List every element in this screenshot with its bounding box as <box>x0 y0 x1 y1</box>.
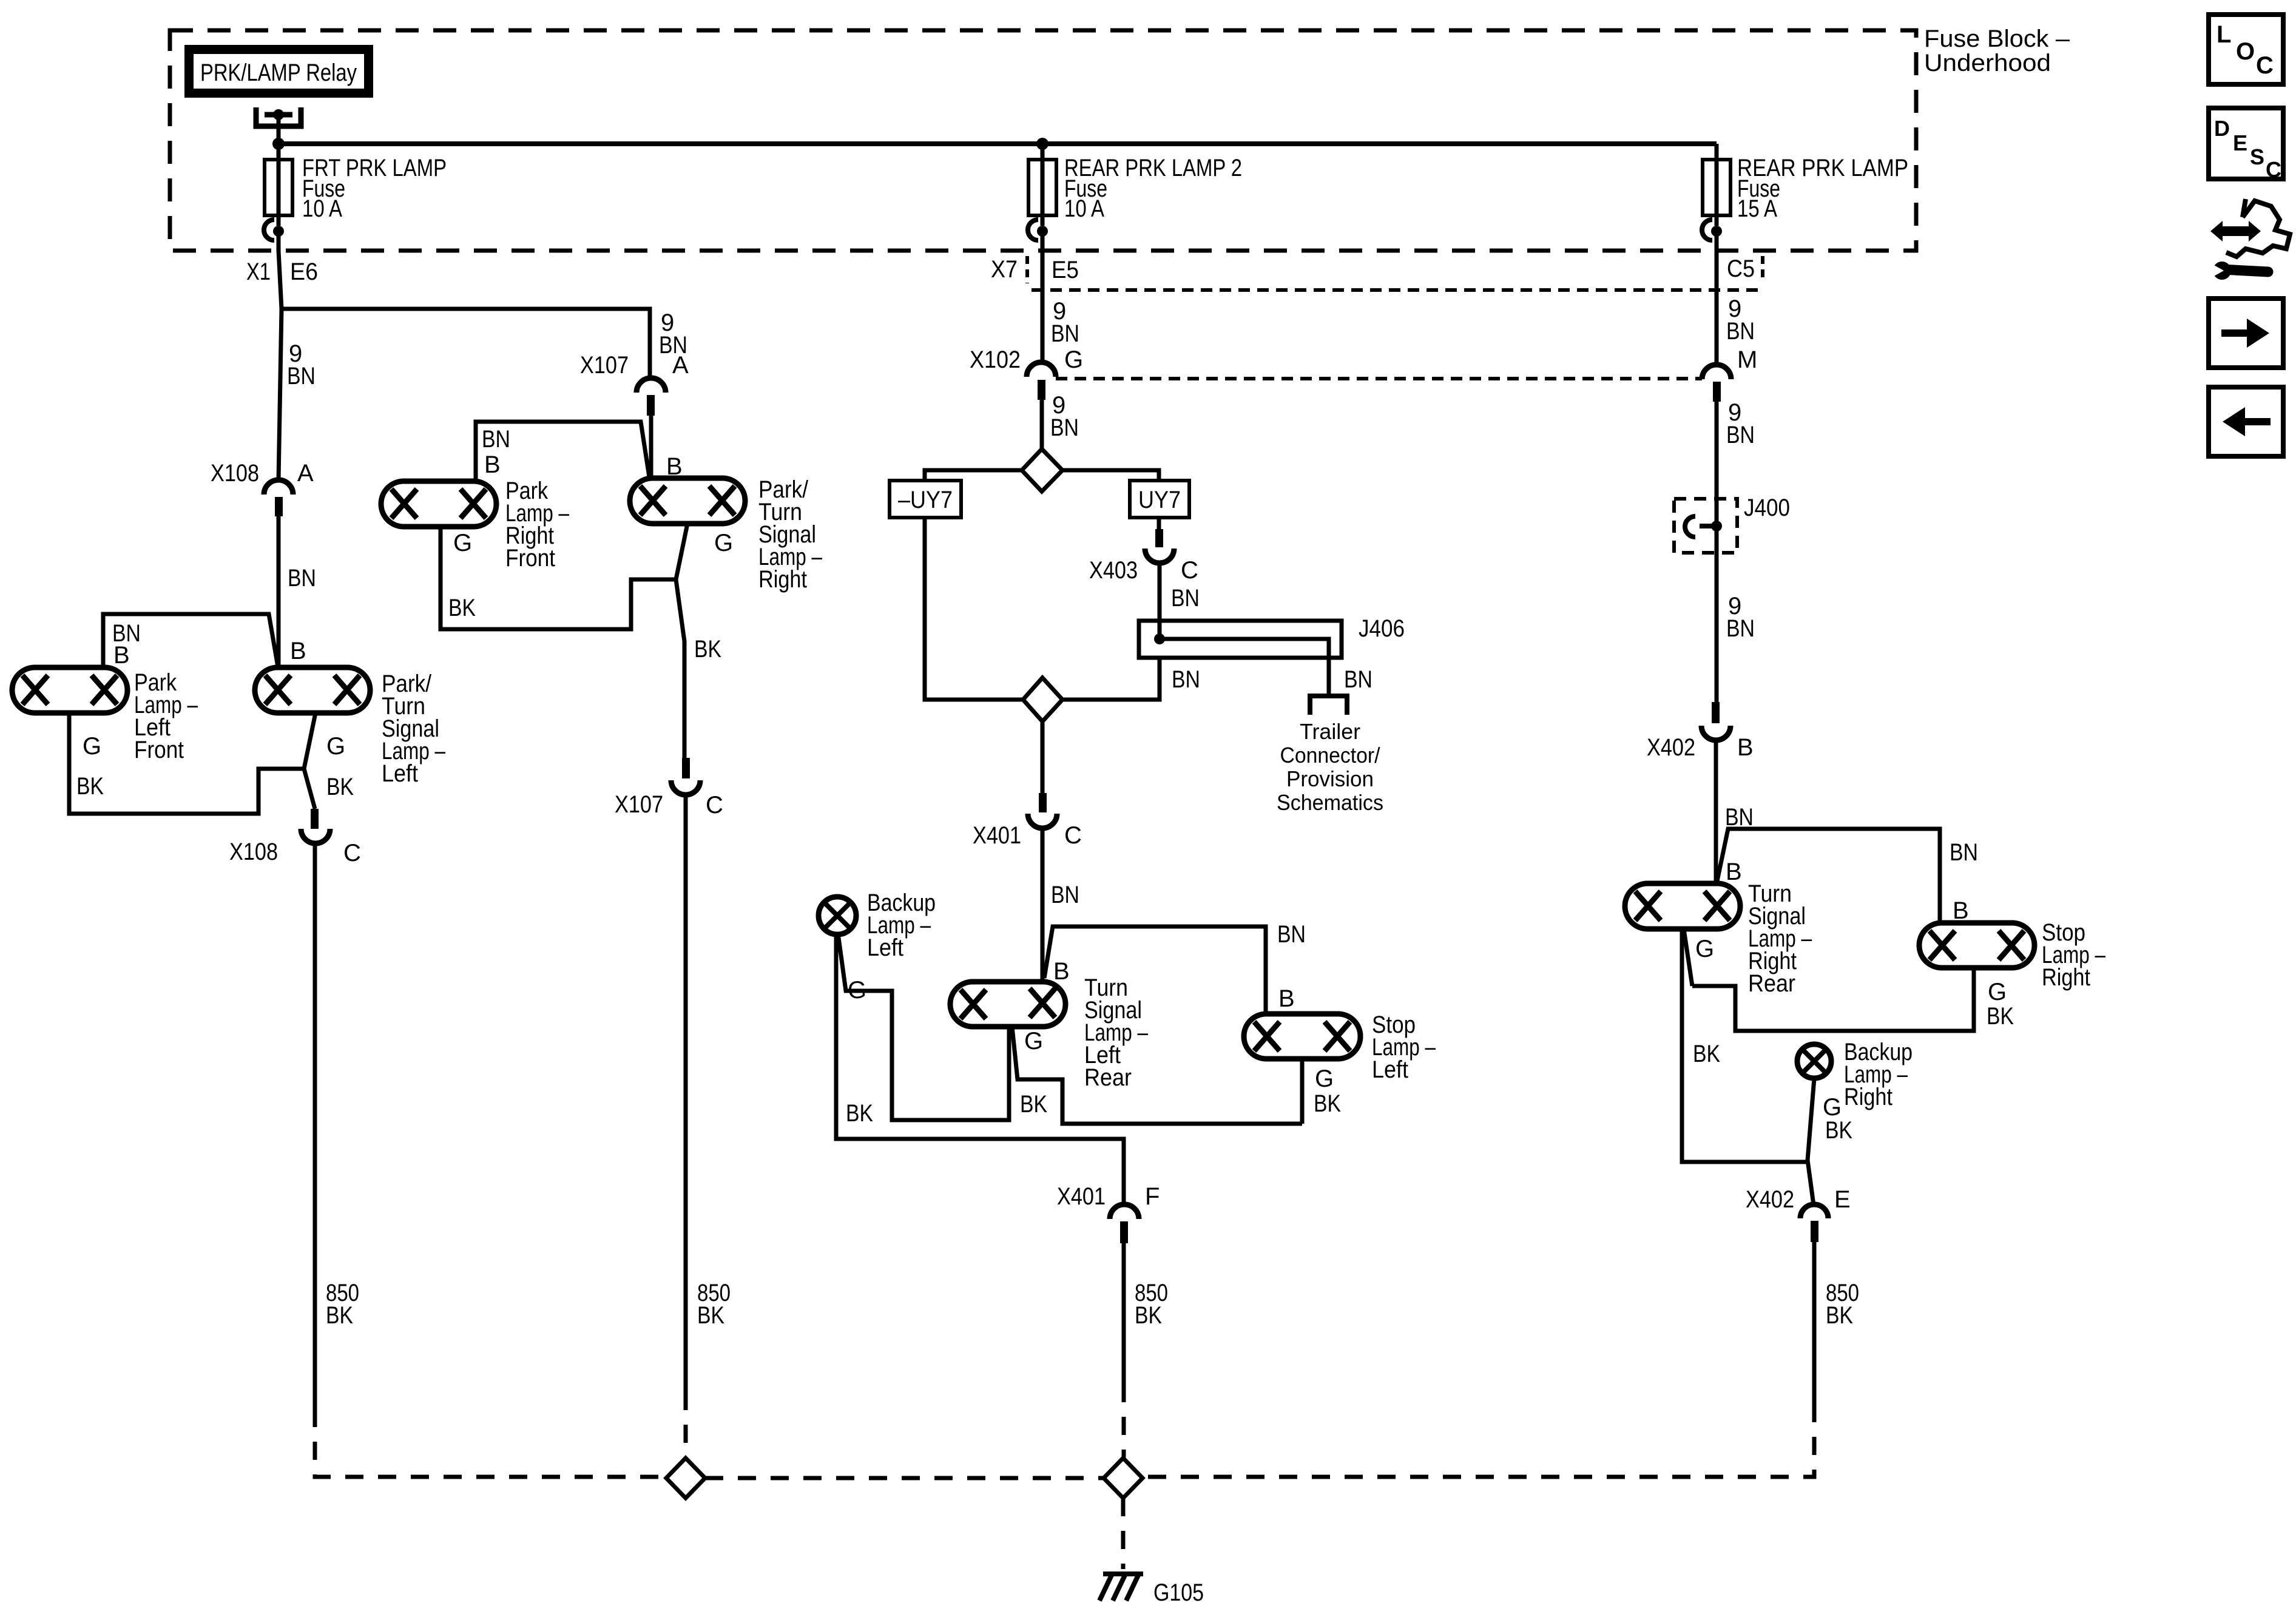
svg-text:M: M <box>1737 346 1757 373</box>
svg-text:BN: BN <box>482 426 510 453</box>
svg-text:BN: BN <box>1051 882 1079 908</box>
wire X402 B down to Y split <box>1714 740 1718 885</box>
svg-text:G: G <box>1695 936 1714 962</box>
lamp E7: Backup Lamp Left <box>819 897 856 934</box>
svg-text:A: A <box>672 352 689 379</box>
fuse F3 output clip <box>1702 220 1712 240</box>
connector X403 pin C <box>1155 529 1163 547</box>
svg-text:G: G <box>714 530 733 556</box>
svg-text:X7: X7 <box>991 256 1018 283</box>
svg-text:10 A: 10 A <box>1064 195 1104 222</box>
wire bus to FRT PRK LAMP fuse <box>277 144 281 160</box>
svg-text:G: G <box>326 733 345 760</box>
svg-text:BK: BK <box>697 1302 724 1329</box>
svg-text:C: C <box>2266 157 2281 182</box>
splice pack J406 <box>1139 621 1342 658</box>
wire X401 C down to Y split <box>1041 828 1045 983</box>
svg-text:Right: Right <box>2042 964 2090 991</box>
svg-text:G: G <box>83 733 101 760</box>
relay K: PRK/LAMP Relay box <box>189 50 369 93</box>
svg-text:BN: BN <box>1950 839 1978 866</box>
svg-text:BN: BN <box>287 363 316 390</box>
trailer connector provision symbol <box>1310 696 1347 715</box>
svg-text:BN: BN <box>1726 318 1755 345</box>
wire park lamp left front G BK <box>69 713 304 814</box>
svg-text:X402: X402 <box>1647 734 1695 761</box>
wire dashed splice to ground <box>1121 1498 1126 1569</box>
svg-text:BK: BK <box>1314 1090 1341 1117</box>
lamp E6: Stop Lamp Left <box>1244 1014 1360 1059</box>
lamp E3: Park Lamp Left Front <box>12 667 127 713</box>
wire E6 branch to X107 A <box>282 309 650 378</box>
svg-text:B: B <box>290 638 306 664</box>
relay contact pin symbol <box>256 107 301 126</box>
wire branch to park lamp left front B <box>103 614 278 667</box>
svg-text:BN: BN <box>1171 585 1200 612</box>
svg-text:B: B <box>1953 897 1969 924</box>
wire X401 F down 850 BK <box>1122 1243 1126 1384</box>
wire X108 C down 850 BK <box>313 843 317 1409</box>
svg-text:Fuse Block –: Fuse Block – <box>1924 25 2070 52</box>
svg-text:B: B <box>1737 734 1754 761</box>
svg-text:G: G <box>1024 1028 1043 1055</box>
wire X108 A to park/turn lamp left B <box>277 516 281 667</box>
wire dashed X108 C to ground bus <box>315 1409 666 1477</box>
svg-text:J406: J406 <box>1359 615 1405 642</box>
wire dashed ground bus between splices <box>705 1476 1104 1480</box>
svg-text:BN: BN <box>1172 666 1200 693</box>
svg-text:–UY7: –UY7 <box>898 487 953 513</box>
ground G105 <box>1103 1571 1143 1576</box>
wire dashed X107 C to splice <box>684 1392 688 1457</box>
svg-text:UY7: UY7 <box>1138 487 1181 513</box>
svg-text:G: G <box>1988 979 2007 1005</box>
svg-text:E6: E6 <box>290 258 318 285</box>
splice diamond lower <box>1023 678 1062 721</box>
wire backup lamp left G down BK <box>836 934 1124 1204</box>
svg-text:Right: Right <box>758 566 807 593</box>
wire X102 G to splice diamond <box>1040 400 1044 449</box>
svg-text:C: C <box>2256 52 2274 79</box>
svg-text:G: G <box>1315 1065 1334 1092</box>
fuse F2 REAR PRK LAMP 2 10A <box>1028 160 1056 215</box>
wire X102 M down through J400 <box>1715 402 1719 702</box>
svg-text:C: C <box>1064 822 1082 849</box>
wire turn signal right rear G down BK <box>1682 929 1808 1162</box>
wire park/turn right G BK to X107 C <box>676 524 687 758</box>
lamp E10: Backup Lamp Right <box>1797 1044 1831 1078</box>
lamp E5: Turn Signal Lamp Left Rear <box>950 982 1065 1027</box>
svg-text:BK: BK <box>76 773 104 800</box>
svg-text:BN: BN <box>1726 422 1755 448</box>
fuse F1 FRT PRK LAMP 10A <box>265 160 292 215</box>
inline connection J400 <box>1674 499 1737 553</box>
wire bus to REAR PRK LAMP 2 fuse <box>1041 144 1045 160</box>
svg-text:BN: BN <box>1277 921 1306 948</box>
svg-text:X1: X1 <box>246 258 271 285</box>
splice diamond upper <box>1022 449 1062 491</box>
svg-text:BK: BK <box>1825 1117 1852 1144</box>
wire X1 E6 down to X108 A <box>279 309 282 480</box>
svg-text:X102: X102 <box>970 346 1021 373</box>
connector X402 pin B <box>1712 702 1720 723</box>
sidebar icon DESC <box>2209 108 2283 179</box>
svg-text:G: G <box>453 530 472 556</box>
wire turn signal right rear G jog <box>1684 929 1692 986</box>
fuse F1 output clip <box>264 220 274 240</box>
connector X401 pin C <box>1039 793 1047 812</box>
sidebar icon wrench <box>2222 269 2268 272</box>
svg-text:BN: BN <box>288 565 316 592</box>
connector X108 pin C <box>311 809 319 829</box>
wire park lamp right front G BK <box>441 527 676 629</box>
svg-text:Trailer: Trailer <box>1300 719 1360 744</box>
svg-text:B: B <box>113 642 130 669</box>
svg-text:B: B <box>1726 859 1742 885</box>
lamp E4: Park/Turn Signal Lamp Left <box>255 667 370 713</box>
svg-text:Provision: Provision <box>1286 766 1374 791</box>
svg-text:Front: Front <box>134 737 184 763</box>
svg-text:B: B <box>484 451 501 478</box>
svg-text:Rear: Rear <box>1748 970 1795 997</box>
svg-text:BK: BK <box>1826 1302 1853 1329</box>
wire branch to stop lamp right B <box>1717 829 1940 923</box>
svg-text:D: D <box>2214 116 2230 141</box>
wire -UY7 down to splice diamond lower <box>925 518 1023 700</box>
svg-text:B: B <box>1278 985 1295 1012</box>
connector X107 pin C <box>682 758 690 778</box>
option box -UY7 <box>890 481 961 518</box>
wire bus to REAR PRK LAMP fuse <box>1715 144 1719 160</box>
svg-text:Left: Left <box>1372 1056 1408 1083</box>
fuse block underhood dashed box <box>170 30 1916 251</box>
connector X7 dashed span line to C5 <box>1032 288 1763 292</box>
svg-text:X107: X107 <box>580 352 629 379</box>
svg-text:X402: X402 <box>1746 1186 1794 1213</box>
wire J406 left out to splice diamond lower <box>1062 658 1160 700</box>
wire stop lamp left G BK <box>1300 1059 1305 1124</box>
svg-text:F: F <box>1145 1183 1160 1210</box>
svg-text:15 A: 15 A <box>1737 195 1777 222</box>
svg-text:Right: Right <box>1844 1084 1893 1110</box>
splice diamond ground right <box>1104 1458 1143 1498</box>
svg-text:X401: X401 <box>973 822 1021 849</box>
lamp E9: Stop Lamp Right <box>1919 923 2034 968</box>
wire branch to stop lamp left B <box>1044 927 1266 1014</box>
sidebar icon vehicle wiring double arrow <box>2210 221 2261 241</box>
lamp E2: Park/Turn Signal Lamp Right <box>630 478 745 524</box>
splice diamond ground left <box>666 1458 705 1498</box>
wire park/turn left G BK to X108 C <box>304 713 316 809</box>
wire fuse F1 to X1 E6 <box>279 231 282 309</box>
wire stop lamp right G BK to turn signal G <box>1692 968 1974 1031</box>
svg-text:X108: X108 <box>229 839 278 865</box>
svg-text:Connector/: Connector/ <box>1280 743 1380 768</box>
svg-text:BN: BN <box>1344 666 1373 693</box>
svg-text:BK: BK <box>694 636 721 663</box>
wire diamond to -UY7 <box>925 470 1022 481</box>
svg-text:G: G <box>1064 346 1083 373</box>
svg-text:BK: BK <box>326 774 354 800</box>
lamp E8: Turn Signal Lamp Right Rear <box>1625 883 1740 929</box>
svg-text:S: S <box>2250 144 2264 169</box>
wire X107 A to park/turn lamp right B <box>649 416 653 478</box>
svg-text:X401: X401 <box>1057 1183 1106 1210</box>
wire fuse F3 to X102 M <box>1715 231 1719 365</box>
wire diamond to X401 C <box>1041 721 1045 793</box>
lamp E: Park Lamp Right Front <box>381 481 496 527</box>
wire backup lamp right G BK <box>1808 1078 1814 1205</box>
wire branch to park lamp right front B <box>476 422 649 481</box>
wire turn signal left rear G to stop lamp left G <box>1012 1027 1302 1124</box>
svg-text:BN: BN <box>1726 615 1755 642</box>
connector X102 dashed span line to M <box>1056 377 1702 380</box>
svg-text:O: O <box>2236 38 2255 65</box>
wire UY7 to X403 C <box>1157 518 1161 529</box>
svg-text:Left: Left <box>867 934 903 961</box>
wire diamond to UY7 <box>1062 470 1159 481</box>
wire X403 C to J406 <box>1158 563 1162 639</box>
svg-text:J400: J400 <box>1744 495 1790 521</box>
fuse F3 REAR PRK LAMP 15A <box>1703 160 1730 215</box>
wire X107 C down 850 BK <box>684 795 688 1392</box>
svg-text:C: C <box>343 840 361 866</box>
sidebar icon arrow left <box>2209 387 2283 456</box>
svg-text:BK: BK <box>1693 1041 1720 1067</box>
svg-text:Front: Front <box>505 545 555 572</box>
wire fuse F2 to X7 E5 <box>1041 231 1045 362</box>
node bus-relay junction <box>272 138 285 150</box>
node bus-fuse2 junction <box>1036 138 1048 150</box>
wire X402 E down 850 BK <box>1812 1242 1817 1404</box>
svg-text:G105: G105 <box>1153 1579 1204 1606</box>
wire dashed X401 F to splice <box>1122 1384 1126 1457</box>
wire backup lamp left G jog to turn lamp <box>838 933 1009 1120</box>
svg-text:BK: BK <box>326 1302 353 1329</box>
wire relay to bus <box>277 117 281 144</box>
svg-text:Rear: Rear <box>1084 1064 1132 1091</box>
svg-text:BK: BK <box>1135 1302 1162 1329</box>
svg-text:BK: BK <box>846 1100 873 1127</box>
svg-text:E5: E5 <box>1052 257 1079 283</box>
svg-text:Underhood: Underhood <box>1924 50 2051 76</box>
svg-text:E: E <box>1834 1186 1851 1213</box>
svg-text:L: L <box>2217 21 2231 48</box>
svg-text:C5: C5 <box>1727 255 1755 282</box>
wire dashed X402 E to ground bus <box>1144 1404 1814 1477</box>
sidebar icon LOC <box>2209 15 2283 84</box>
svg-text:X108: X108 <box>211 460 259 487</box>
svg-text:A: A <box>297 460 314 487</box>
sidebar icon vehicle outline <box>2226 199 2290 257</box>
svg-text:B: B <box>1053 958 1070 985</box>
fuse F2 output clip <box>1028 220 1038 240</box>
svg-text:X403: X403 <box>1089 557 1138 584</box>
svg-text:BK: BK <box>448 595 476 621</box>
svg-text:BN: BN <box>1050 414 1079 441</box>
svg-text:C: C <box>1181 557 1198 584</box>
svg-text:Schematics: Schematics <box>1277 790 1383 815</box>
svg-text:PRK/LAMP Relay: PRK/LAMP Relay <box>200 59 357 86</box>
svg-text:BN: BN <box>1725 804 1754 831</box>
wire bus B+ feed <box>279 141 1717 146</box>
svg-text:E: E <box>2233 130 2247 155</box>
sidebar icon arrow right <box>2209 299 2283 368</box>
svg-text:10 A: 10 A <box>302 195 342 222</box>
svg-text:C: C <box>706 792 723 819</box>
svg-text:BK: BK <box>1987 1003 2014 1030</box>
svg-text:BN: BN <box>1051 320 1079 347</box>
svg-text:X107: X107 <box>615 791 663 818</box>
svg-text:Left: Left <box>382 760 418 787</box>
option box UY7 <box>1130 481 1189 518</box>
svg-text:BK: BK <box>1020 1091 1047 1118</box>
